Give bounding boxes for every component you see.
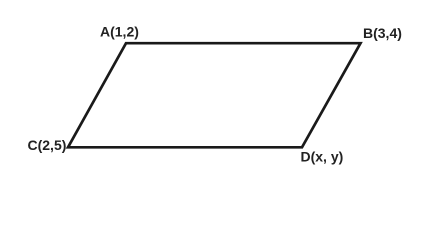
svg-text:C(2,5): C(2,5) bbox=[28, 137, 67, 153]
svg-text:D(x, y): D(x, y) bbox=[301, 148, 344, 164]
parallelogram ABDC outline bbox=[68, 43, 361, 147]
svg-text:B(3,4): B(3,4) bbox=[363, 25, 402, 41]
svg-text:A(1,2): A(1,2) bbox=[100, 24, 139, 40]
